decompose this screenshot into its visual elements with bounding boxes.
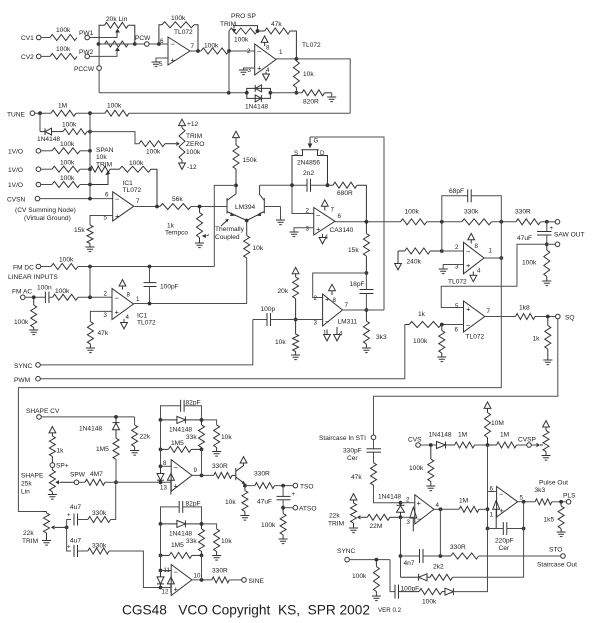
capacitor 100p (sync): [253, 306, 323, 326]
svg-text:10k: 10k: [303, 71, 314, 78]
svg-text:1N4148: 1N4148: [378, 494, 401, 501]
capacitor 18pF: [350, 273, 374, 312]
power +V arrow (IC1b): [119, 280, 126, 290]
svg-text:CGS48 VCO Copyright KS, SP: CGS48 VCO Copyright KS, SPR 2002: [122, 603, 370, 618]
svg-text:−: −: [174, 568, 179, 577]
svg-text:-12: -12: [187, 164, 197, 171]
svg-text:100k: 100k: [405, 209, 420, 216]
svg-text:22k: 22k: [140, 434, 151, 441]
svg-text:1: 1: [279, 49, 283, 56]
svg-text:+: +: [174, 585, 179, 594]
node CV2: [21, 54, 50, 61]
node CV bus top: [76, 111, 105, 115]
svg-text:LM394: LM394: [235, 204, 255, 211]
wire saw ac to SQ pin5: [441, 244, 547, 307]
node PCW: [97, 35, 152, 46]
svg-text:PCW: PCW: [135, 35, 151, 42]
svg-text:7: 7: [345, 302, 349, 309]
svg-text:8: 8: [475, 243, 479, 250]
power -V arrow (U1b pin4): [263, 72, 270, 81]
node CV1: [21, 35, 50, 42]
svg-text:−: −: [316, 211, 321, 220]
svg-text:CV2: CV2: [21, 54, 34, 61]
svg-text:Lin: Lin: [21, 489, 30, 496]
svg-text:4u7: 4u7: [70, 504, 81, 511]
capacitor 4u7 (sine): [67, 527, 88, 557]
resistor 3k3: [363, 310, 387, 348]
potentiometer 100k TRIM ZERO: [179, 119, 205, 171]
wire CV bus: [89, 113, 91, 198]
resistor 47k: [258, 21, 297, 59]
ground (10k pin3): [291, 355, 300, 360]
svg-text:−: −: [499, 490, 504, 499]
svg-text:CA3140: CA3140: [330, 227, 354, 234]
wire op1 pin3 riser: [399, 517, 403, 577]
wire tri output: [192, 449, 214, 477]
resistor 10k (LM394 emitters): [244, 221, 264, 304]
svg-text:330R: 330R: [254, 471, 270, 478]
svg-text:2N4856: 2N4856: [297, 160, 320, 167]
resistor 1M (CVS): [455, 432, 490, 449]
resistor 56k: [160, 196, 227, 210]
svg-text:7: 7: [191, 43, 195, 50]
svg-text:CV1: CV1: [21, 35, 34, 42]
svg-text:100k: 100k: [62, 122, 77, 129]
svg-text:150k: 150k: [243, 157, 258, 164]
label thermally coupled: [215, 219, 245, 241]
node SYNC (staircase): [337, 548, 390, 562]
svg-text:100k: 100k: [522, 260, 537, 267]
svg-text:100k: 100k: [186, 149, 201, 156]
svg-text:330k: 330k: [92, 543, 107, 550]
svg-text:−: −: [115, 294, 120, 303]
wire FM DC row: [78, 265, 214, 269]
resistor 100k (FM AC shunt): [14, 297, 37, 330]
ground (pin5 U1a): [152, 58, 169, 67]
svg-text:Coupled: Coupled: [215, 234, 240, 241]
capacitor 2n2: [260, 170, 333, 192]
svg-text:13: 13: [160, 485, 167, 492]
ground (47k): [86, 348, 95, 353]
resistor 1M (op1 to op2): [459, 498, 488, 513]
svg-text:Cer: Cer: [499, 545, 510, 552]
node SQ: [556, 314, 575, 321]
svg-text:+: +: [174, 482, 179, 491]
power +V arrow (U1b pin8): [261, 36, 268, 46]
svg-text:+: +: [500, 506, 505, 515]
wire CA3140 pin2: [292, 185, 314, 213]
svg-text:680R: 680R: [337, 190, 353, 197]
svg-text:820R: 820R: [303, 99, 319, 106]
capacitor 330pF Cer: [343, 440, 381, 463]
wire PW2 to pot2 wiper: [90, 48, 118, 56]
resistor 2k2: [430, 529, 524, 581]
resistor 1M5 (sine): [159, 542, 202, 558]
svg-text:−: −: [466, 321, 471, 330]
resistor 100k feedback U1a: [159, 15, 198, 51]
op-amp tri shaper: [160, 460, 198, 492]
node CVSP: [518, 437, 537, 448]
svg-text:3: 3: [104, 312, 108, 319]
resistor 10k (Q1 emitter): [225, 486, 248, 516]
svg-text:3: 3: [306, 226, 310, 233]
op-amp TL072 square comparator: [455, 301, 491, 341]
resistor 100k (ATSO): [261, 508, 286, 539]
ground (LM394 right base): [276, 220, 285, 225]
power -V arrow (IC1b): [121, 319, 128, 329]
svg-text:100k: 100k: [146, 149, 161, 156]
resistor 1M5 (shape cv): [96, 438, 119, 484]
resistor 100k (CV1): [50, 27, 77, 41]
svg-text:100k: 100k: [56, 27, 71, 34]
svg-text:−: −: [325, 317, 330, 326]
svg-text:1M: 1M: [459, 498, 468, 505]
power -V arrow (CA3140): [319, 234, 326, 244]
svg-text:2: 2: [314, 295, 318, 302]
wire SQ output: [485, 316, 516, 318]
resistor 4M7: [85, 471, 116, 485]
svg-text:330k: 330k: [92, 510, 107, 517]
svg-text:PCCW: PCCW: [74, 66, 95, 73]
diode 1N4148 (tri): [159, 416, 204, 433]
svg-text:2: 2: [455, 244, 459, 251]
resistor 100k (CV2): [50, 46, 77, 59]
resistor 22M: [367, 514, 400, 530]
svg-text:100k: 100k: [107, 103, 122, 110]
node ATSO: [283, 505, 316, 512]
svg-text:100k: 100k: [59, 257, 74, 264]
capacitor 220pF Cer: [488, 502, 526, 552]
svg-text:+12: +12: [187, 121, 199, 128]
potentiometer CVSP: [536, 421, 549, 456]
resistor 47k (IC1b pin3): [87, 311, 112, 348]
svg-text:15k: 15k: [348, 247, 359, 254]
svg-text:4: 4: [477, 268, 481, 275]
resistor 330R (tri): [212, 463, 236, 478]
node CVSN: [7, 196, 113, 222]
svg-text:1k8: 1k8: [519, 305, 530, 312]
svg-text:100k: 100k: [55, 288, 70, 295]
capacitor 4u7 (tri): [67, 504, 88, 527]
ground (3k3): [362, 348, 371, 353]
ground (CA3140 pin3): [290, 228, 314, 237]
resistor 3k3 (pulse out): [535, 480, 569, 505]
resistor 1k Tempco: [165, 207, 209, 244]
svg-text:10k: 10k: [275, 339, 286, 346]
resistor 100k (1V/O 1): [52, 141, 92, 154]
wire saw sum to pin2: [442, 222, 464, 251]
svg-text:4: 4: [266, 67, 270, 74]
svg-text:TL072: TL072: [466, 334, 485, 341]
ground (sq 1k): [543, 360, 552, 365]
svg-text:−: −: [257, 47, 262, 56]
svg-text:33k: 33k: [186, 538, 197, 545]
svg-text:Pulse Out: Pulse Out: [539, 480, 568, 487]
svg-text:7: 7: [487, 308, 491, 315]
svg-text:10: 10: [194, 573, 201, 580]
diode (2k2 row): [401, 574, 431, 581]
capacitor 47uF (saw out): [517, 222, 554, 246]
svg-text:100k: 100k: [129, 160, 144, 167]
wire saw buffer output: [484, 256, 503, 260]
capacitor 47uF (tri ac): [257, 486, 296, 510]
svg-text:PWM: PWM: [14, 377, 30, 384]
resistor 100k (span fb): [110, 160, 157, 207]
svg-text:100k: 100k: [204, 43, 219, 50]
svg-text:1V/O: 1V/O: [8, 182, 23, 189]
svg-text:SPW: SPW: [70, 472, 86, 479]
svg-text:2: 2: [306, 208, 310, 215]
potentiometer SPAN 10k TRIM: [90, 147, 114, 185]
svg-text:100k: 100k: [14, 319, 29, 326]
resistor 100k (trim zero wiper): [139, 141, 180, 156]
svg-text:Staircase Out: Staircase Out: [537, 562, 577, 569]
op-amp IC1a TL072: [104, 180, 142, 222]
ground (15k): [86, 247, 95, 252]
svg-text:+: +: [67, 544, 71, 551]
resistor 330R (saw out): [515, 209, 555, 225]
svg-text:−: −: [171, 40, 176, 49]
ground (sync 100k): [372, 596, 381, 601]
svg-text:10k: 10k: [96, 154, 107, 161]
resistor 1M (CVSP): [488, 432, 527, 449]
potentiometer 20k Lin (upper): [99, 16, 135, 44]
node 1V/O input 2: [8, 167, 52, 174]
ground (saw buffer pin3): [439, 265, 464, 274]
svg-text:330R: 330R: [212, 568, 228, 575]
svg-text:SYNC: SYNC: [337, 548, 356, 555]
ground (10k sine): [212, 556, 221, 561]
resistor 100k (saw sum in): [401, 209, 462, 225]
svg-text:100k: 100k: [352, 573, 367, 580]
wire op2 output: [518, 500, 536, 504]
power -V arrow (240k): [395, 251, 402, 270]
svg-text:1k: 1k: [418, 311, 426, 318]
ground (shape pot): [48, 495, 57, 500]
power -V arrows (LM311 pins 1,4): [324, 327, 341, 341]
resistor 100k (1V/O 2): [52, 160, 92, 173]
svg-text:TSO: TSO: [300, 484, 314, 491]
svg-text:3: 3: [407, 519, 411, 526]
svg-text:1M: 1M: [500, 432, 509, 439]
svg-text:−: −: [466, 247, 471, 256]
op-amp IC1b TL072: [104, 289, 157, 327]
resistor 100k (CVS shunt): [409, 445, 434, 486]
svg-text:4: 4: [436, 502, 440, 509]
transistor 2N4856 JFET: [292, 137, 328, 185]
op-amp LM311: [314, 294, 358, 338]
node 1V/O input 1: [8, 149, 52, 156]
svg-text:47k: 47k: [351, 474, 362, 481]
svg-text:330R: 330R: [212, 463, 228, 470]
wire 150k node to FM riser: [214, 185, 236, 266]
capacitor 4n7: [401, 549, 443, 567]
ground (22k shape trim): [42, 541, 51, 546]
resistor 33k (sine): [186, 524, 205, 557]
diode (sine rail): [157, 571, 164, 590]
svg-text:TL072: TL072: [174, 29, 193, 36]
svg-text:22M: 22M: [370, 523, 383, 530]
svg-text:4M7: 4M7: [90, 471, 103, 478]
ground (22k trim staircase): [349, 528, 358, 533]
power +V arrow (Q1): [240, 457, 247, 463]
wire LM311 output: [343, 309, 385, 311]
resistor 100k (row2): [62, 122, 92, 135]
diode (tri rail): [157, 466, 164, 482]
power +V arrow (CA3140): [321, 200, 328, 211]
svg-text:SP+: SP+: [56, 463, 69, 470]
svg-text:100p: 100p: [261, 306, 276, 313]
svg-text:22k: 22k: [329, 513, 340, 520]
wire SQ to staircase in: [374, 319, 558, 435]
svg-text:TUNE: TUNE: [7, 112, 26, 119]
svg-text:ZERO: ZERO: [186, 141, 204, 148]
svg-text:20k Lin: 20k Lin: [106, 16, 128, 23]
ground (1k5): [557, 532, 566, 537]
ground (tempco): [195, 243, 204, 248]
wire PCCW row to comparator input: [99, 91, 247, 95]
svg-text:SHAPE: SHAPE: [21, 473, 44, 480]
ground (ATSO 100k): [279, 539, 288, 544]
svg-text:100k: 100k: [60, 141, 75, 148]
wire op1 output: [434, 507, 459, 511]
svg-text:2n2: 2n2: [303, 170, 314, 177]
svg-text:100k: 100k: [171, 15, 186, 22]
svg-text:2: 2: [104, 291, 108, 298]
resistor 1M: [51, 103, 76, 117]
ground (pin3 U1b): [239, 68, 255, 75]
resistor 1M5 (tri): [159, 440, 202, 452]
resistor 100k (1V/O 3): [52, 175, 92, 188]
node 1V/O input 3: [8, 182, 52, 189]
node SYNC: [14, 320, 253, 371]
svg-text:4u7: 4u7: [70, 538, 81, 545]
svg-text:10k: 10k: [221, 538, 232, 545]
svg-text:VER 0.2: VER 0.2: [378, 607, 402, 614]
svg-text:1N4148: 1N4148: [169, 427, 192, 434]
svg-text:TL072: TL072: [123, 187, 142, 194]
svg-text:22k: 22k: [23, 530, 34, 537]
title: [122, 603, 402, 618]
svg-text:LM311: LM311: [338, 319, 358, 326]
diode 1N4148 (sine): [159, 520, 204, 537]
resistor 10k (tri): [202, 420, 233, 452]
svg-text:IC1: IC1: [123, 180, 134, 187]
svg-text:330k: 330k: [464, 209, 479, 216]
svg-text:12: 12: [162, 589, 169, 596]
svg-text:SHAPE CV: SHAPE CV: [26, 408, 60, 415]
svg-text:3: 3: [314, 320, 318, 327]
ground (22k shape): [130, 451, 139, 456]
potentiometer 22k TRIM (staircase): [328, 494, 367, 528]
svg-text:+: +: [292, 491, 296, 498]
node comparator input: [227, 49, 255, 93]
wire op1 inputs: [401, 503, 415, 518]
wire sine output: [192, 555, 212, 581]
svg-text:TL072: TL072: [448, 279, 467, 286]
svg-text:−: −: [115, 195, 120, 204]
svg-text:100k: 100k: [60, 160, 75, 167]
svg-text:TRIM: TRIM: [328, 521, 344, 528]
svg-text:1N4148: 1N4148: [37, 136, 60, 143]
resistor 1k5: [544, 502, 565, 532]
resistor 10M: [484, 402, 504, 445]
svg-text:Thermally: Thermally: [215, 226, 245, 233]
wire schmitt fb to LM311 pin2: [313, 273, 367, 298]
resistor 15k (pin5): [74, 216, 113, 248]
resistor 100k (FM AC series): [53, 267, 113, 301]
svg-text:47uF: 47uF: [257, 499, 272, 506]
node SINE: [242, 578, 265, 585]
svg-text:15k: 15k: [74, 227, 85, 234]
op-amp TL072 saw buffer: [448, 242, 493, 285]
svg-text:9: 9: [194, 467, 198, 474]
node PCCW: [74, 44, 101, 93]
transistor Q1 buffer: [236, 463, 245, 486]
svg-text:LINEAR INPUTS: LINEAR INPUTS: [8, 274, 58, 281]
wire PCW to pin6: [149, 42, 168, 46]
node SAW OUT: [554, 220, 585, 239]
svg-text:6: 6: [338, 213, 342, 220]
svg-text:+: +: [257, 64, 262, 73]
diode (sync row): [445, 529, 488, 596]
resistor 150k: [233, 131, 258, 187]
potentiometer 20k Lin (lower): [105, 41, 129, 51]
svg-text:TRIM: TRIM: [186, 133, 202, 140]
svg-text:2k2: 2k2: [433, 564, 444, 571]
resistor 330R (TSO): [254, 471, 293, 489]
capacitor 100pF (IC1b fb): [144, 267, 179, 304]
resistor 680R: [333, 182, 366, 222]
svg-text:1: 1: [489, 248, 493, 255]
svg-text:100k: 100k: [60, 175, 75, 182]
resistor 1k (sq shunt): [533, 317, 551, 361]
resistor 22k (shape cv): [132, 417, 151, 451]
svg-text:330R: 330R: [450, 544, 466, 551]
svg-text:STO: STO: [549, 547, 562, 554]
power +V arrow (saw buffer): [468, 233, 475, 243]
resistor 20k (pin3 pullup): [278, 267, 300, 321]
svg-text:FM DC: FM DC: [13, 265, 34, 272]
svg-text:1N4148: 1N4148: [245, 104, 268, 111]
power -V arrow (saw buffer): [470, 272, 477, 282]
svg-text:5: 5: [455, 303, 459, 310]
svg-text:1: 1: [490, 512, 494, 519]
diode (input motif op1): [410, 507, 417, 531]
svg-text:47uF: 47uF: [517, 235, 532, 242]
ground (pwm 100k): [437, 357, 446, 362]
resistor 47k (staircase): [351, 463, 401, 503]
svg-text:3k3: 3k3: [376, 334, 387, 341]
ground (FM AC): [29, 330, 38, 335]
resistor 100k (pwm shunt): [413, 325, 445, 358]
svg-text:SAW OUT: SAW OUT: [554, 232, 585, 239]
resistor 330k (sine): [88, 543, 161, 588]
resistor 100k (tune fb): [105, 103, 129, 117]
capacitor 82pF (sine): [161, 501, 202, 524]
diode 1N4148 (CVS): [429, 432, 455, 449]
wire op1 out riser: [439, 509, 441, 556]
svg-text:1V/O: 1V/O: [8, 167, 23, 174]
node FM AC: [12, 289, 45, 300]
wire U1a output: [190, 49, 201, 53]
wire summing node X: [486, 445, 497, 530]
resistor 100k (FM DC): [51, 257, 78, 270]
wire tri shaper rail: [159, 420, 172, 468]
svg-text:11: 11: [164, 567, 171, 574]
svg-text:240k: 240k: [407, 259, 422, 266]
svg-text:+: +: [316, 225, 321, 234]
